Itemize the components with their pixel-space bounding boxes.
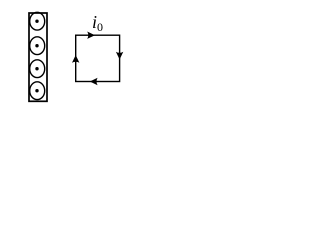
arrowhead: current direction on right wire (downward)	[116, 52, 123, 60]
solenoid L1 core rectangle	[29, 13, 47, 101]
arrowhead: current direction on bottom wire (leftward)	[90, 78, 98, 85]
label i0: loop current	[92, 13, 103, 33]
arrowhead: current direction on top wire (rightward)	[87, 32, 95, 39]
solenoid L1 turn 1 (current out of page)	[30, 12, 45, 30]
arrowhead: current direction on left wire (upward)	[72, 55, 79, 63]
wire loop: square circuit carrying current i0	[76, 35, 120, 81]
solenoid L1 turn 3 (current out of page)	[30, 60, 45, 78]
solenoid L1 turn 4 (current out of page)	[30, 82, 45, 100]
solenoid L1 turn 2 (current out of page)	[30, 37, 45, 55]
